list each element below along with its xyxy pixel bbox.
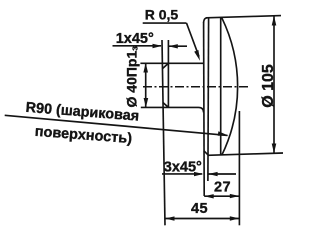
3x45 underline + left arrow line (162, 173, 202, 175)
R90 leader line (5, 115, 228, 135)
centerline (axis, dash-dot) (143, 86, 249, 88)
1x45 right dimension arrow line (169, 45, 188, 47)
arrowhead 45 right (points right) (230, 216, 240, 220)
arrowhead Ø105 top (up) (272, 16, 277, 26)
head top chamfer R0,5 (204, 18, 208, 23)
stem top edge (with Ø40 extension) (140, 62, 203, 64)
svg-text:Ø 40Пр1з: Ø 40Пр1з (124, 46, 141, 108)
arrowhead 1x45 left (points right) (153, 44, 163, 48)
arrowhead R90 leader (points right) (218, 131, 229, 135)
right extension line for 27 and 45 (238, 111, 240, 225)
arrowhead 27 right (points right) (230, 194, 240, 198)
arrowhead 1x45 right (points left) (168, 44, 177, 48)
svg-text:R 0,5: R 0,5 (145, 6, 179, 22)
svg-text:R90 (шариковая: R90 (шариковая (25, 100, 140, 125)
sphere junction edge line (220, 18, 222, 155)
1x45 underline + left dimension arrow line (113, 45, 162, 47)
27 dimension line (204, 195, 239, 197)
R0,5 leader diagonal (187, 23, 200, 56)
stem top chamfer 1x45 (163, 63, 169, 68)
Ø40 dimension line (145, 63, 147, 107)
arrowhead 3x45 right (points left at rim ext) (208, 172, 217, 176)
stem chamfer edge line (with 1x45 ext above) (167, 40, 169, 107)
arrowhead Ø105 bottom (down) (272, 144, 277, 154)
svg-text:поверхность): поверхность) (34, 124, 133, 147)
45 dimension line (165, 218, 239, 220)
arrowhead R0,5 (points down-right to fillet) (194, 50, 200, 61)
spherical surface silhouette (R90) (222, 18, 238, 155)
arrowhead 45 left (points left) (165, 216, 175, 220)
arrowhead Ø40 bottom (down) (144, 98, 149, 108)
R0,5 leader shelf (143, 22, 187, 24)
head bottom chamfer 3x45 (204, 151, 209, 156)
stem bottom chamfer (163, 103, 169, 108)
arrowhead Ø40 top (up) (143, 63, 148, 73)
svg-text:27: 27 (214, 180, 231, 196)
svg-text:45: 45 (191, 201, 208, 217)
head back face (continues down as 27 extension line) (203, 22, 206, 196)
stem left face (serves as 1x45 ext above and 45 ext below) (162, 40, 165, 225)
head bottom edge + Ø105 bottom extension line (208, 153, 284, 155)
Ø105 dimension line (273, 16, 275, 153)
head top edge + Ø105 top extension line (206, 16, 281, 18)
arrowhead 3x45 left (points right at face ext) (194, 172, 204, 176)
head rim edge line (continues as 3x45 ext tick) (207, 18, 210, 181)
3x45 right arrow line (208, 173, 236, 175)
svg-text:3x45°: 3x45° (164, 160, 202, 176)
svg-text:Ø 105: Ø 105 (260, 64, 277, 108)
stem bottom edge (with Ø40 extension, fillet into head face) (141, 107, 204, 112)
arrowhead 27 left (points left) (204, 194, 214, 198)
svg-text:1x45°: 1x45° (116, 31, 154, 47)
